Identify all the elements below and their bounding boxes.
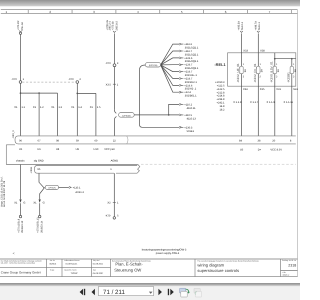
svg-text:(OPTION): (OPTION) [149, 64, 158, 67]
svg-text:+495.3/4: +495.3/4 [238, 20, 241, 30]
svg-text:/29E.8-2: /29E.8-2 [116, 21, 119, 31]
svg-text:Trupp: Trupp [50, 269, 54, 272]
svg-text:302/2H2.1: 302/2H2.1 [185, 81, 198, 84]
svg-text:X 1.1.11: X 1.1.11 [284, 101, 294, 104]
svg-text:X33: X33 [243, 50, 248, 53]
svg-text:-K2SB1: -K2SB1 [286, 72, 290, 83]
svg-text:1.1: 1.1 [21, 106, 25, 109]
svg-text:U6: U6 [37, 148, 41, 151]
svg-text:U5: U5 [240, 148, 244, 151]
svg-text:Plan, E-Schalt-: Plan, E-Schalt- [115, 262, 143, 267]
svg-text:OPTION: OPTION [48, 186, 56, 189]
svg-text:01.08-kaufw.: 01.08-kaufw. [66, 262, 78, 265]
cable marker OPTION (mid) [114, 109, 134, 136]
svg-text:AI B1.2: AI B1.2 [75, 191, 84, 194]
svg-text:Steuerung OW: Steuerung OW [114, 268, 141, 273]
svg-text:-K3X2_D+_01: -K3X2_D+_01 [253, 63, 257, 82]
svg-text:302/B01.1: 302/B01.1 [185, 95, 197, 98]
svg-text:G: G [23, 201, 25, 204]
svg-text:3A: 3A [244, 69, 247, 72]
mechanical link dashed [22, 81, 75, 83]
chassis wire to -X70 4 [14, 165, 25, 233]
svg-text:-X70: -X70 [11, 78, 17, 81]
svg-text:+070.6/2SL10: +070.6/2SL10 [37, 217, 40, 233]
bottom toolbar [0, 283, 300, 300]
wire K3X0 branch [275, 53, 296, 136]
svg-text:04.08.2007: 04.08.2007 [93, 272, 104, 275]
svg-text:18.2: 18.2 [219, 109, 225, 112]
title block [0, 259, 298, 277]
svg-text:3021/2Q2.1: 3021/2Q2.1 [185, 67, 199, 70]
svg-text:Crane Group Germany GmbH: Crane Group Germany GmbH [1, 270, 41, 274]
feeder wires into box [238, 20, 261, 136]
frame right edge [297, 10, 299, 277]
svg-text:sig GND: sig GND [34, 160, 44, 163]
svg-text:+070.1b: +070.1b [111, 21, 114, 31]
terminal strip -X3X_0 [12, 130, 296, 144]
svg-text:3021/1Q2.1: 3021/1Q2.1 [185, 53, 199, 56]
connector pin -X70 1 [11, 32, 24, 83]
svg-text:3A: 3A [277, 69, 280, 72]
svg-text:/2SL.84: /2SL.84 [21, 21, 24, 30]
break mark [137, 165, 140, 174]
REL1 contact reference list [215, 81, 225, 112]
svg-text:<: < [13, 252, 15, 256]
svg-text:4110.11: 4110.11 [187, 107, 197, 110]
svg-text:1.2: 1.2 [40, 106, 44, 109]
top toolbar bar [0, 0, 300, 6]
svg-text:29.8/EX.14: 29.8/EX.14 [40, 220, 43, 233]
svg-text:U10: U10 [94, 148, 99, 151]
svg-text:1.4: 1.4 [78, 106, 82, 109]
svg-text:X1: X1 [90, 106, 94, 109]
connector tick X3.5 [106, 67, 119, 110]
svg-text:D+: D+ [258, 148, 262, 151]
svg-text:3021/1Q1.1: 3021/1Q1.1 [185, 46, 199, 49]
svg-text:-K3X0_8.5V_01: -K3X0_8.5V_01 [269, 61, 273, 83]
wire bus left group [20, 83, 58, 136]
svg-text:T6.12-1: T6.12-1 [241, 21, 244, 30]
svg-text:X 1.1.9: X 1.1.9 [267, 101, 276, 104]
svg-text:CG_mbH · nicht ohne Genehmig.: CG_mbH · nicht ohne Genehmig. verwendbar [1, 261, 36, 264]
svg-text:X1: X1 [14, 201, 18, 204]
svg-text:X31: X31 [276, 88, 281, 91]
svg-text:1.5: 1.5 [97, 106, 101, 109]
svg-text:Obj. titel: Obj. titel [93, 259, 100, 262]
svg-text:501E1: 501E1 [187, 130, 195, 133]
svg-text:X35: X35 [260, 88, 265, 91]
wire fan from OPTION splice [161, 43, 199, 97]
svg-text:-X70: -X70 [105, 214, 111, 217]
wire to -X70 5 [105, 173, 119, 219]
svg-text:G: G [43, 201, 45, 204]
svg-text:X1: X1 [71, 106, 75, 109]
svg-text:=Ubatt-ur: =Ubatt-ur [282, 273, 290, 276]
svg-text:chassis: chassis [16, 160, 25, 163]
svg-text:X 1.1.8: X 1.1.8 [233, 101, 242, 104]
svg-text:+070.2/2: +070.2/2 [17, 20, 20, 30]
node ref label top-left [17, 20, 24, 32]
cable marker OPTION (top) [140, 63, 195, 133]
svg-text:-K3X2_UE_01: -K3X2_UE_01 [236, 63, 240, 83]
svg-text:+496.7/4: +496.7/4 [254, 20, 257, 30]
connector pin -X70 3 [105, 33, 119, 66]
svg-text:-K3B4: -K3B4 [30, 166, 33, 173]
svg-text:2318: 2318 [288, 263, 296, 267]
svg-text:+110.1: +110.1 [73, 186, 81, 189]
svg-text:-REL1: -REL1 [214, 62, 226, 67]
svg-text:(OPTION): (OPTION) [122, 114, 131, 117]
svg-text:302/H2+.1: 302/H2+.1 [185, 74, 198, 77]
svg-text:1.3: 1.3 [58, 106, 62, 109]
svg-text:U8: U8 [56, 148, 60, 151]
svg-text:TZDW: TZDW [71, 272, 79, 275]
wire to +110 refs [134, 103, 196, 120]
svg-text:-X70: -X70 [68, 78, 74, 81]
svg-text:wiring diagram: wiring diagram [197, 263, 224, 268]
svg-text:01.08.2011: 01.08.2011 [93, 263, 104, 266]
sheet subtitle [142, 249, 187, 255]
svg-text:X2: X2 [107, 202, 111, 205]
svg-text:X1: X1 [51, 106, 55, 109]
svg-text:3A: 3A [261, 69, 264, 72]
wire bus right group [76, 83, 95, 136]
svg-text:29.8/EX.12: 29.8/EX.12 [21, 220, 24, 233]
sheet margin revision text [0, 176, 6, 207]
svg-text:power supply /OW-3: power supply /OW-3 [156, 252, 180, 255]
fuse elements [236, 61, 297, 83]
pin labels below box [243, 88, 298, 91]
svg-text:Dat.: Dat. [93, 269, 97, 272]
svg-text:X38: X38 [260, 50, 265, 53]
component group box [228, 53, 296, 86]
svg-text:Ers.d. 04.08.2007 Bl. 29: Ers.d. 04.08.2007 Bl. 29 [3, 180, 6, 207]
svg-text:3A: 3A [294, 69, 297, 72]
svg-text:AGND: AGND [111, 160, 119, 163]
svg-text:X3.5: X3.5 [106, 83, 112, 86]
svg-text:05/0U5: 05/0U5 [50, 263, 58, 266]
controller module outline [6, 145, 296, 174]
sense wire via OPTION marker [33, 173, 84, 233]
svg-text:U5: U5 [19, 148, 23, 151]
svg-text:superstructure controls: superstructure controls [197, 268, 239, 273]
terminal labels X1.1.x [233, 101, 293, 104]
connector pin -X70 2 [68, 78, 81, 83]
svg-text:S41: S41 [293, 88, 298, 91]
svg-text:T6.11-1: T6.11-1 [258, 22, 261, 31]
svg-text:Art.-Nr.: Art.-Nr. [50, 259, 56, 262]
svg-text:Aufbewahren bis zur: Aufbewahren bis zur [64, 259, 80, 262]
module pin function labels [16, 148, 282, 163]
drawing frame column strip [1, 10, 298, 14]
svg-text:4110.13: 4110.13 [187, 117, 197, 120]
node ref labels top-mid [106, 19, 119, 32]
svg-text:+070.4/2SL9: +070.4/2SL9 [18, 218, 21, 233]
svg-text:Zeichng.-Nr. Bl.-Nr.: Zeichng.-Nr. Bl.-Nr. [282, 259, 297, 262]
terminal labels X1 [14, 106, 101, 109]
svg-text:X34: X34 [243, 88, 248, 91]
svg-text:X1: X1 [14, 106, 18, 109]
svg-text:X1: X1 [33, 106, 37, 109]
svg-text:X 1.1.7: X 1.1.7 [250, 101, 259, 104]
svg-text:VCC peri: VCC peri [104, 148, 115, 151]
svg-text:-X70: -X70 [105, 62, 111, 65]
svg-text:71 / 211: 71 / 211 [103, 289, 125, 296]
svg-text:U9: U9 [76, 148, 80, 151]
svg-text:VCC 8.5V: VCC 8.5V [270, 148, 282, 151]
svg-text:-X3X_0: -X3X_0 [12, 130, 15, 139]
svg-text:X1: X1 [33, 201, 37, 204]
